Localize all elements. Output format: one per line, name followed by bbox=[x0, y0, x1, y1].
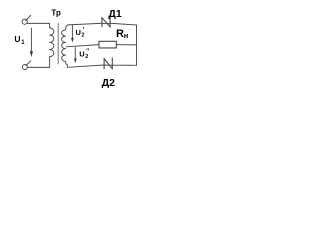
U2' arrowhead bbox=[71, 38, 74, 43]
svg-text:Д1: Д1 bbox=[108, 8, 121, 20]
svg-text:U: U bbox=[76, 28, 81, 37]
terminal bottom-left slash bbox=[26, 61, 31, 66]
svg-text:1: 1 bbox=[21, 40, 25, 46]
U2' voltage arrow bbox=[71, 25, 73, 38]
terminal bottom-left input bbox=[22, 65, 27, 70]
diode D1 bbox=[102, 17, 110, 27]
U1 arrowhead bbox=[30, 51, 33, 57]
transformer secondary winding bbox=[62, 25, 68, 67]
wire bottom from right edge through D2 to secondary bbox=[67, 65, 136, 67]
wire primary bottom to lower terminal bbox=[27, 57, 49, 68]
transformer Tp primary winding bbox=[50, 28, 54, 57]
wire center tap to resistor bbox=[66, 45, 99, 47]
terminal top-left input bbox=[22, 19, 27, 24]
svg-text:′: ′ bbox=[83, 27, 85, 33]
svg-text:Д2: Д2 bbox=[102, 77, 115, 89]
svg-text:2: 2 bbox=[81, 33, 84, 39]
wire resistor to right edge bbox=[116, 44, 136, 46]
svg-text:U: U bbox=[79, 49, 84, 58]
U1 voltage arrow bbox=[30, 28, 32, 51]
svg-text:Тр: Тр bbox=[51, 9, 61, 18]
wire secondary top to diode D1 and right edge bbox=[68, 23, 137, 25]
resistor RH body bbox=[99, 41, 116, 48]
svg-text:U: U bbox=[14, 34, 20, 44]
U2'' arrowhead bbox=[74, 59, 77, 64]
svg-text:″: ″ bbox=[86, 49, 89, 55]
svg-text:н: н bbox=[124, 31, 129, 40]
wire right edge vertical bbox=[136, 25, 138, 65]
wire top-left from terminal to primary bbox=[27, 23, 49, 28]
transformer core bbox=[57, 24, 59, 65]
U2'' voltage arrow bbox=[74, 48, 76, 59]
diode D2 bbox=[104, 58, 112, 69]
terminal top-left slash bbox=[26, 15, 31, 20]
